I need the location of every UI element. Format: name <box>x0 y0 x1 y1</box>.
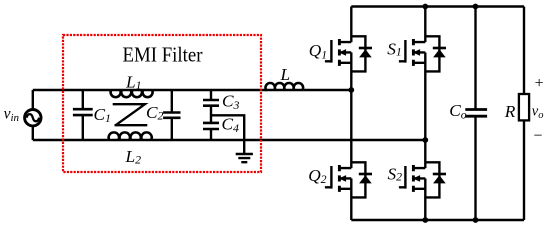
transistor Q2 source lead <box>350 178 352 220</box>
wire source top lead <box>32 90 34 110</box>
transistor S2 channel ticks <box>412 165 415 192</box>
transistor Q1 channel ticks <box>338 39 341 66</box>
transistor S2 source lead <box>424 178 426 220</box>
transistor Q1 stubs <box>339 42 351 63</box>
resistor R bottom lead <box>523 120 525 220</box>
transistor Q1 gate lead <box>325 40 332 63</box>
transistor S1 channel ticks <box>412 39 415 66</box>
svg-text:C3: C3 <box>222 92 240 113</box>
capacitor Co top lead <box>474 7 476 110</box>
junction dot bottom rail / S leg <box>422 217 428 223</box>
transistor S1 arrow <box>413 49 420 56</box>
wire top (L1 to L) <box>153 89 267 91</box>
junction dot top rail / Co <box>473 4 479 10</box>
inductor L2 <box>108 132 152 140</box>
svg-text:L2: L2 <box>125 147 142 167</box>
svg-text:+: + <box>535 75 544 92</box>
top rail <box>351 5 524 8</box>
svg-text:L1: L1 <box>125 72 142 92</box>
diode D2 (body of S1) <box>425 36 439 71</box>
transistor Q2 drain lead <box>350 90 352 168</box>
transistor Q2 arrow <box>339 175 346 182</box>
capacitor C3 branch top lead <box>210 90 212 100</box>
wire source bottom lead <box>32 126 34 140</box>
inductor L <box>266 83 304 90</box>
transistor Q1 source lead <box>350 52 352 90</box>
transistor Q1 drain lead <box>350 7 352 43</box>
wire bottom (source to L2) <box>33 139 109 141</box>
coupling mark Z <box>113 104 148 125</box>
svg-text:C4: C4 <box>222 115 240 136</box>
transistor Q2 stubs <box>339 168 351 189</box>
capacitor C2 plates <box>163 113 180 118</box>
svg-text:EMI Filter: EMI Filter <box>123 43 203 67</box>
svg-text:−: − <box>533 127 542 144</box>
wire top (source to L1) <box>33 89 111 91</box>
svg-text:C2: C2 <box>146 103 164 122</box>
bottom rail <box>351 219 524 222</box>
capacitor Co bottom lead <box>474 116 476 220</box>
ground symbol <box>236 154 253 162</box>
svg-text:S2: S2 <box>388 164 403 183</box>
diode D4 (body of S2) <box>425 162 439 197</box>
wire C3/C4 midpoint to ground <box>211 115 244 154</box>
svg-text:S1: S1 <box>387 39 402 58</box>
transistor S1 gate lead <box>399 40 406 63</box>
transistor Q2 channel ticks <box>338 165 341 192</box>
diode D1 (body of Q1) <box>351 36 365 71</box>
junction dot top rail / S leg <box>422 4 428 10</box>
transistor S1 stubs <box>413 42 425 63</box>
svg-text:L: L <box>280 65 291 84</box>
transistor Q2 gate lead <box>325 166 332 189</box>
node A junction dot <box>348 87 354 93</box>
capacitor C2 bottom lead <box>171 118 173 140</box>
svg-text:C1: C1 <box>94 105 111 125</box>
svg-text:Q1: Q1 <box>309 41 327 61</box>
AC source sine wave <box>26 114 39 121</box>
inductor L1 <box>110 90 153 97</box>
transistor S2 drain lead <box>424 140 426 168</box>
wire top (L to node A) <box>303 89 351 91</box>
svg-text:vo: vo <box>532 103 544 121</box>
capacitor C1 branch top lead <box>82 90 84 109</box>
transistor S2 stubs <box>413 168 425 189</box>
transistor S2 arrow <box>413 175 420 182</box>
transistor S2 gate lead <box>399 166 406 189</box>
transistor Q1 arrow <box>339 49 346 56</box>
wire bottom (L2 to node B) <box>152 139 426 141</box>
capacitor C3/C4 middle link <box>210 106 212 123</box>
capacitor C2 branch top lead <box>171 90 173 113</box>
capacitor C4 plates <box>203 123 219 129</box>
transistor S1 source lead <box>424 52 426 140</box>
svg-text:Q2: Q2 <box>308 166 326 186</box>
capacitor Co plates <box>465 110 487 117</box>
svg-text:Co: Co <box>449 101 467 121</box>
EMI filter dotted box <box>63 35 261 172</box>
capacitor C3 plates <box>203 100 219 106</box>
svg-text:R: R <box>504 102 516 121</box>
resistor R body <box>519 94 529 120</box>
capacitor C4 bottom lead <box>210 129 212 140</box>
capacitor C1 bottom lead <box>82 115 84 140</box>
diode D3 (body of Q2) <box>351 162 365 197</box>
capacitor C1 plates <box>73 109 93 115</box>
resistor R top lead <box>523 7 525 95</box>
transistor S1 drain lead <box>424 7 426 43</box>
svg-text:vin: vin <box>4 106 20 125</box>
node B junction dot <box>422 137 428 143</box>
junction dot bottom rail / Co <box>473 217 479 223</box>
AC source vin <box>25 110 41 126</box>
